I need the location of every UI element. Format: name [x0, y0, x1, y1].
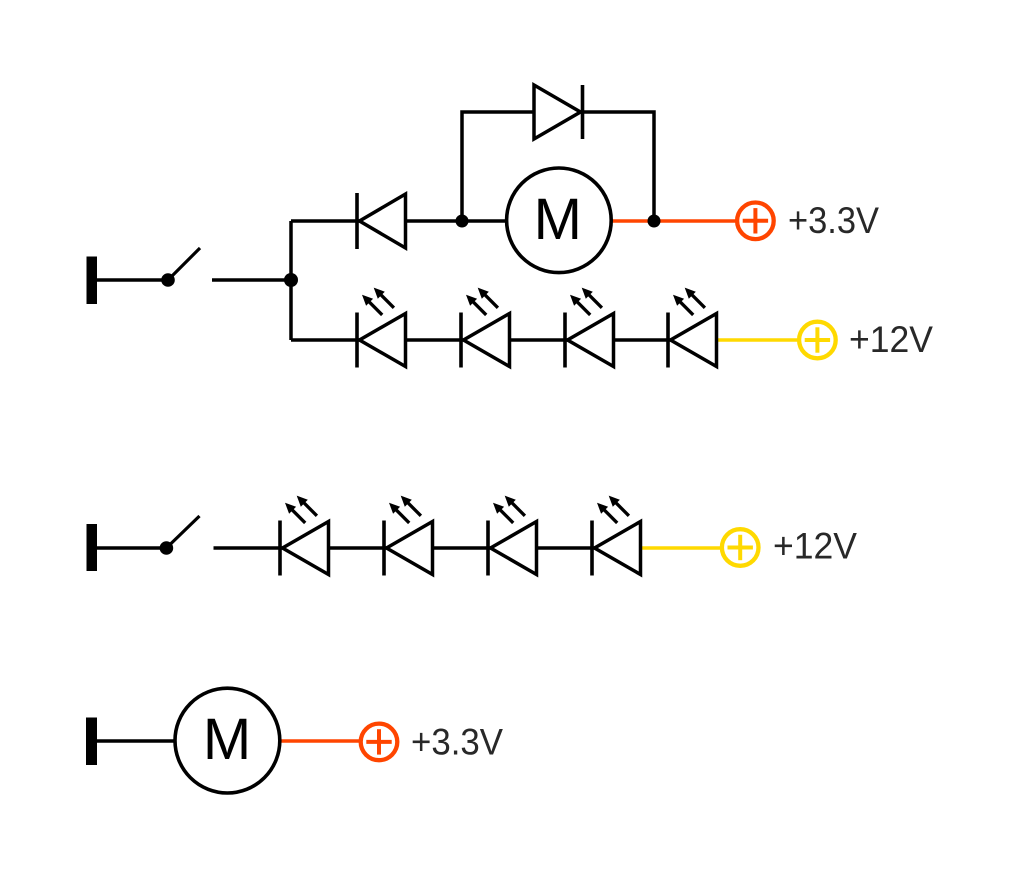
svg-text:+12V: +12V [849, 319, 933, 360]
svg-text:+12V: +12V [773, 526, 857, 567]
svg-text:+3.3V: +3.3V [788, 200, 879, 241]
svg-text:M: M [534, 187, 582, 252]
svg-text:M: M [203, 707, 251, 772]
svg-text:+3.3V: +3.3V [411, 722, 503, 763]
